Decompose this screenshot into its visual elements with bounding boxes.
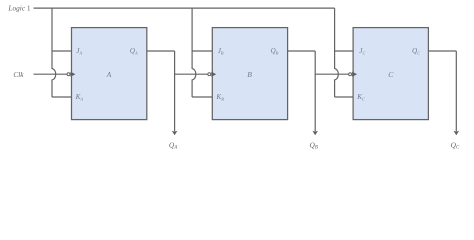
clock wedge C [352, 72, 357, 77]
clock bubble C [349, 73, 352, 76]
wire: Q_A to FF B clock [175, 73, 208, 75]
clock bubble B [208, 73, 211, 76]
clock bubble A [67, 73, 70, 76]
wire: Q_C output [428, 50, 456, 52]
svg-text:Logic 1: Logic 1 [7, 3, 30, 12]
arrow: Q_C output arrowhead [454, 131, 460, 136]
wire: Clk input to FF A clock [34, 73, 67, 75]
flip-flop A box [72, 28, 147, 120]
wire: Q_A vertical drop [174, 51, 176, 132]
svg-text:QA: QA [169, 140, 178, 150]
wire: Logic 1 drop to FF B J/K (hops over clock wire) [192, 8, 196, 97]
svg-text:QB: QB [310, 140, 318, 150]
wire: K_A stub [52, 96, 72, 98]
wire: Q_B output [288, 50, 316, 52]
wire: J_C stub [335, 50, 354, 52]
clock wedge B [211, 72, 216, 77]
flip-flop B box [212, 28, 287, 120]
wire: Q_B vertical drop [314, 51, 316, 132]
clock wedge A [71, 72, 76, 77]
wire: K_B stub [192, 96, 212, 98]
svg-text:QC: QC [451, 140, 460, 150]
wire: J_B stub [192, 50, 212, 52]
arrow: Q_B output arrowhead [312, 131, 318, 136]
wire: Q_B to FF C clock [315, 73, 349, 75]
wire: Logic 1 drop to FF A J/K (hops over Clk wire) [52, 8, 56, 97]
svg-text:A: A [106, 70, 112, 79]
wire: Logic 1 drop to FF C J/K (hops over clock wire) [335, 8, 339, 97]
arrow: Q_A output arrowhead [172, 131, 178, 136]
wire: K_C stub [335, 96, 354, 98]
wire: Q_C vertical drop [455, 51, 457, 132]
wire: J_A stub [52, 50, 72, 52]
flip-flop C box [353, 28, 428, 120]
svg-text:Clk: Clk [13, 70, 24, 79]
svg-text:B: B [247, 70, 252, 79]
wire: Q_A output [147, 50, 175, 52]
wire: Logic 1 top rail [34, 7, 335, 9]
